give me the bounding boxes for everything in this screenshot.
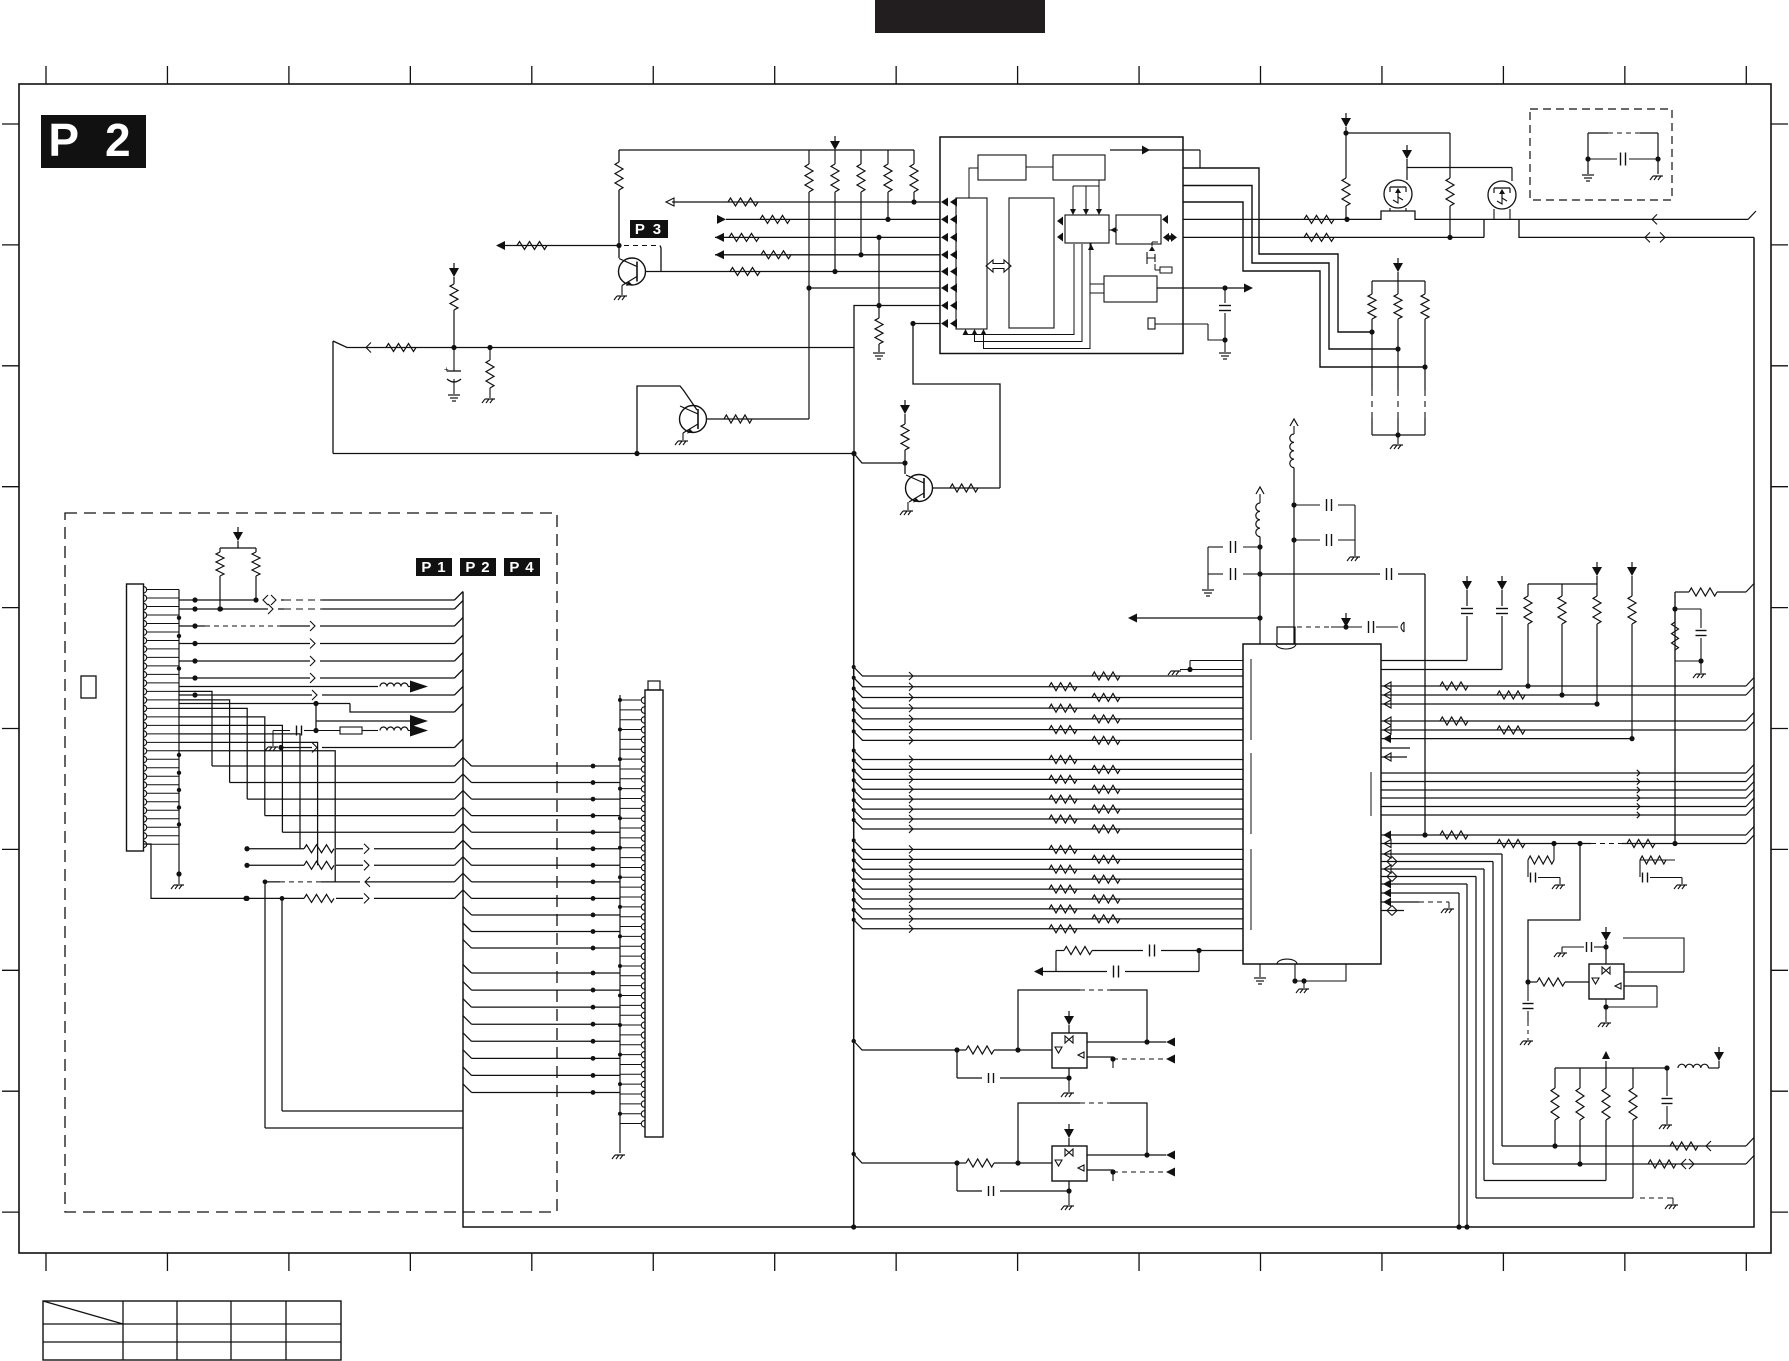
U1 crystal — [1148, 318, 1225, 340]
resistor R10 — [760, 215, 790, 223]
ground U4 — [1598, 999, 1611, 1027]
power arrow V16 — [1064, 1124, 1074, 1146]
wire row 832 to CN2 — [282, 824, 620, 835]
capacitor C11 — [1659, 1068, 1673, 1129]
rail top wire — [619, 149, 914, 151]
resistor R31 — [1497, 726, 1525, 734]
junction — [634, 451, 639, 456]
wire U2 staircase 869 — [1381, 869, 1484, 1181]
wire U2 staircase 861 — [1381, 862, 1493, 1165]
ground C6 — [1202, 590, 1214, 596]
wire row 898 to CN2 — [244, 890, 620, 904]
wire rail 133 — [1343, 130, 1450, 135]
capacitor C7 — [1369, 621, 1399, 633]
capacitor C6 — [1208, 568, 1260, 589]
power arrow V5 — [1402, 145, 1412, 180]
wire U2 mid row 806 — [1381, 798, 1754, 810]
title block bar — [875, 0, 1045, 33]
wire row 237 — [715, 236, 940, 238]
wire fan row 678 — [179, 670, 463, 684]
wire bus row 718 — [852, 708, 1243, 723]
wire U2 row 910 stub — [1381, 906, 1404, 916]
arrow 150 — [1142, 146, 1150, 155]
wire row 931 to CN2 — [463, 923, 620, 934]
power arrow V17 — [233, 527, 243, 548]
pullup columns U2 — [1524, 584, 1601, 704]
sheet label P2 — [41, 114, 146, 168]
dashed base link — [624, 245, 658, 247]
wire drop row 881 — [263, 879, 463, 1128]
svg-text:P 1: P 1 — [421, 559, 446, 576]
wire bus row 990 to CN2 — [463, 982, 620, 993]
U1 sub-block B — [1053, 155, 1105, 180]
wire Q3 collector — [913, 324, 1000, 489]
svg-text:+: + — [444, 365, 449, 374]
resistor R29 — [1497, 691, 1525, 699]
capacitor C1 electrolytic — [444, 348, 461, 402]
wire bus row 849 — [852, 838, 1243, 853]
wire long 347 — [333, 341, 854, 348]
resistor R22 — [1446, 133, 1454, 237]
ground RC pair — [1693, 674, 1706, 678]
wire out2 U6 — [1087, 1168, 1175, 1182]
power arrow V8 — [1462, 576, 1472, 590]
connector CN2 body — [645, 681, 663, 1137]
ground Q3 emitter — [900, 502, 913, 515]
wire U2 row 835 — [1381, 827, 1754, 840]
ground Q2 emitter — [675, 433, 688, 445]
wire staircase net C — [1183, 202, 1425, 367]
wire row 799 to CN2 — [247, 791, 620, 802]
wire Q1 collector row — [646, 271, 940, 273]
resistor network R24 R25 R26 — [1368, 281, 1429, 370]
wire bus row 1075 to CN2 — [463, 1067, 620, 1078]
wire U2 row 704 — [1381, 700, 1600, 708]
wire row 848 to CN2 — [244, 840, 620, 854]
wire feedback U6 — [1018, 1103, 1150, 1163]
arrow right row219 — [717, 215, 726, 224]
wire U4 input — [1525, 844, 1589, 987]
power arrow V6 — [1393, 258, 1403, 281]
capacitor C8 — [1461, 590, 1473, 614]
U1 sub-block A — [978, 155, 1026, 180]
ground U2 left — [1254, 964, 1266, 984]
label P3 — [630, 220, 668, 238]
wire staircase net A — [1183, 168, 1372, 332]
wire fan row 730 filter — [265, 725, 428, 752]
inductor L3 — [1664, 1061, 1719, 1071]
arrows staircase — [1383, 850, 1397, 898]
wire net LA — [1183, 211, 1748, 219]
wire out2 U5 — [1087, 1055, 1175, 1069]
arrow left row237 — [715, 233, 724, 242]
resistor R2 — [517, 242, 547, 250]
svg-text:P 2: P 2 — [48, 114, 137, 166]
wire U2 staircase 893 — [1381, 893, 1462, 1230]
resistor R5 pull-up — [831, 150, 839, 272]
wire row 766 to CN2 — [212, 758, 620, 769]
resistor R27 cap C10 pair — [1672, 609, 1707, 673]
wire long left arrow — [1128, 614, 1260, 623]
resistor R21 — [1304, 233, 1453, 241]
wire fan row 661 — [179, 653, 463, 667]
dashed block boundary — [65, 513, 557, 1212]
wire bus row 1058 to CN2 — [463, 1050, 620, 1061]
wire U1 out 150 — [1110, 150, 1200, 168]
wire U2 row 843 — [1381, 835, 1754, 848]
U1 register block 2 — [1009, 198, 1054, 328]
jog LA — [1748, 211, 1756, 219]
capacitor C3 — [1294, 499, 1355, 540]
resistor R6 pull-up — [857, 150, 865, 255]
driver U4 — [1589, 964, 1624, 999]
wire collector link — [660, 246, 661, 272]
wire bus row 740 — [852, 729, 1243, 744]
wire U2 mid row 790 — [1381, 782, 1754, 794]
resistor R28 — [1440, 682, 1468, 690]
junction — [851, 451, 856, 456]
resistor R40 — [216, 548, 256, 612]
junction — [832, 269, 837, 274]
capacitor C5 — [1208, 541, 1260, 574]
wire row 1164 — [1493, 1156, 1754, 1170]
arrow clk — [1244, 284, 1253, 293]
wire row 323 — [910, 321, 940, 326]
wire row 670 — [1381, 616, 1502, 670]
wire row 1146 — [1502, 1138, 1754, 1152]
wire bus row 928 — [852, 918, 1243, 933]
wire U2 mid row 781 — [1381, 773, 1754, 785]
wire U2 row 748 stub — [1381, 747, 1410, 749]
resistor R8 pull-up — [910, 150, 918, 202]
U1 C input arrows — [1057, 217, 1063, 242]
wire bus row 859 — [852, 848, 1243, 863]
wire bottom loop U5 — [957, 1050, 1113, 1083]
driver U5 — [1052, 1033, 1087, 1068]
wire bus row 908 — [852, 898, 1243, 913]
wire U4 out1 — [1623, 938, 1684, 972]
wire fan row 721 arrow — [316, 704, 428, 731]
connector stub E1 — [1401, 622, 1404, 632]
transistor Q2 — [637, 386, 707, 454]
IC U2 body — [1243, 627, 1381, 964]
wire net LB — [1183, 219, 1754, 237]
ground network — [1390, 445, 1403, 449]
wire U4 out2 — [1606, 986, 1657, 1007]
wire loop row 950 — [1056, 945, 1243, 957]
ground U2 bottom — [1292, 964, 1346, 993]
wire U2 row 686 — [1381, 678, 1754, 691]
power arrow V11 column — [1627, 562, 1637, 741]
svg-text:P 4: P 4 — [509, 559, 534, 576]
ground Q1 emitter — [614, 286, 627, 301]
wire row 574 to column — [1260, 568, 1425, 835]
power arrow V2 — [449, 263, 459, 277]
capacitor C4 — [1294, 534, 1355, 556]
connector CN1 body — [127, 584, 144, 851]
wire bus row 809 — [852, 798, 1243, 813]
resistor R7 pull-up — [884, 150, 892, 219]
junction — [885, 217, 890, 222]
wire U2 staircase 876 — [1381, 877, 1476, 1199]
wire row net1 — [500, 243, 622, 248]
wire row 202 — [672, 201, 940, 203]
capacitor C9 — [1496, 590, 1508, 614]
wire row 948 to CN2 — [463, 940, 620, 951]
wire row 661 — [1381, 616, 1467, 661]
ground CN1 — [171, 871, 184, 889]
capacitor C13 U4 input — [1520, 982, 1534, 1045]
wire drop row 898 — [280, 896, 463, 1111]
wire bus row 686 — [852, 676, 1243, 691]
wire bus row 708 — [852, 697, 1243, 712]
wire bus row 779 — [852, 768, 1243, 783]
transistor Q4 mosfet — [1384, 180, 1412, 211]
capacitor C2 — [1219, 288, 1231, 359]
wire U2 mid row 815 — [1381, 807, 1754, 819]
wire out1 U6 — [1087, 1151, 1175, 1160]
wire Q2 collector — [707, 418, 809, 420]
U1 sub-block D — [1116, 215, 1161, 244]
wire right rail — [851, 237, 1754, 1229]
arrows LB — [1645, 232, 1665, 242]
driver U6 — [1052, 1146, 1087, 1181]
revision table — [43, 1301, 341, 1360]
power arrow V12 up — [1602, 1051, 1610, 1068]
svg-text:P 2: P 2 — [465, 559, 490, 576]
U1 small mosfet glyph — [1147, 242, 1172, 273]
power arrow V1 — [830, 136, 840, 150]
ground U5 — [1061, 1078, 1074, 1097]
resistor network R35-R38 — [1551, 1068, 1667, 1198]
wire U2 staircase 854 — [1381, 854, 1502, 1146]
wire fan row 747 — [278, 739, 463, 753]
power arrow V9 — [1497, 576, 1507, 590]
arrow open left 347 — [366, 343, 371, 353]
wire bus row 1041 to CN2 — [463, 1033, 620, 1044]
capacitor C12 U4 — [1554, 942, 1606, 957]
wire feedback U5 — [1018, 990, 1150, 1050]
resistor R13 to ground — [873, 235, 885, 359]
arrow open left row202 — [666, 198, 674, 206]
ground option left — [1582, 175, 1594, 181]
wire U2 row 695 — [1381, 687, 1754, 700]
wire bus row 973 to CN2 — [463, 965, 620, 976]
wire fan row 703 — [179, 701, 463, 712]
power arrow V14 U4 — [1601, 927, 1611, 964]
junction — [806, 285, 811, 290]
wire CN2 pin bus — [618, 695, 622, 1153]
wire bus row 697 — [852, 686, 1243, 701]
wire row 288 — [809, 287, 940, 289]
wire long 453 — [333, 341, 854, 454]
wire U2 mid row 773 — [1381, 765, 1754, 777]
wire bus row 759 — [852, 749, 1243, 764]
resistor R16 to ground — [482, 345, 495, 403]
wire bus row 879 — [852, 868, 1243, 883]
RC snubber A — [1528, 844, 1565, 890]
wire U2 mid row 798 — [1381, 790, 1754, 802]
wire bus row 869 — [852, 858, 1243, 873]
wire fan row 686 inductor — [179, 681, 428, 693]
ground U6 — [1061, 1191, 1074, 1210]
wire bus row 799 — [852, 788, 1243, 803]
resistor R34 — [1627, 840, 1655, 848]
wire input U5 — [852, 1039, 1053, 1054]
wire staircase net B — [1183, 186, 1398, 350]
resistor R32 — [1440, 831, 1468, 839]
wire A-B — [1026, 166, 1053, 168]
power arrow V7 — [1341, 613, 1351, 627]
wire row 881 to CN2 — [265, 873, 620, 887]
wire U1 clk out — [1157, 285, 1244, 290]
inductor L1 — [1290, 419, 1298, 644]
arrow left row255 — [715, 250, 724, 259]
wire bus row 1007 to CN2 — [463, 999, 620, 1010]
power arrow V3 — [900, 400, 910, 414]
U1 D output arrows — [1162, 215, 1177, 242]
resistor R3 — [730, 268, 760, 276]
wire row 914 to CN2 — [463, 906, 620, 917]
wire bottom loop U6 — [957, 1163, 1113, 1196]
wire main bus left — [853, 454, 855, 1228]
wire bus row 676 — [852, 665, 1243, 680]
wire bus row 918 — [852, 908, 1243, 923]
wire row 865 to CN2 — [244, 857, 620, 871]
wire row 1198 — [1476, 1198, 1678, 1209]
U1 register block 1 — [956, 198, 987, 329]
ground C4 — [1347, 557, 1360, 561]
resistor R4 pull-up — [805, 150, 813, 419]
power arrow V15 — [1064, 1011, 1074, 1033]
power arrow V10 — [1592, 562, 1602, 584]
resistor R12 — [761, 251, 791, 259]
wire fan row 643 — [179, 635, 463, 649]
wire pin staircase — [179, 691, 335, 881]
wire bus row 789 — [852, 778, 1243, 793]
wire Q3 base — [854, 454, 908, 475]
resistor R23 — [1342, 133, 1350, 219]
wire row 815 to CN2 — [265, 807, 620, 818]
wire CN1 bottom link — [144, 844, 249, 901]
transistor Q1 — [619, 258, 646, 286]
power arrow V4 — [1341, 113, 1351, 133]
component box small — [81, 676, 96, 698]
wire bus row 828 — [852, 818, 1243, 833]
wire fan bus — [463, 592, 854, 1228]
wire bus row 729 — [852, 719, 1243, 734]
U1 sub-block E — [1104, 276, 1157, 302]
wire bus row 889 — [852, 878, 1243, 893]
wire U2 staircase 884 — [1381, 884, 1470, 1230]
wire row 1180 — [1484, 1180, 1606, 1182]
wire row 255 — [715, 254, 940, 256]
svg-text:P 3: P 3 — [635, 221, 663, 238]
wire U2 row 757 stub — [1381, 753, 1407, 761]
wire bus row 819 — [852, 808, 1243, 823]
ground CN2 — [612, 1155, 625, 1159]
resistor R19 — [950, 484, 978, 492]
labels P1 P2 P4 — [416, 558, 540, 576]
wire U2 row 902 dashed gnd — [1381, 898, 1454, 914]
wire input U6 — [852, 1152, 1053, 1167]
U1 bus arrow — [986, 260, 1011, 272]
wire CN1 pin bus — [177, 590, 181, 875]
arrow left net1 — [496, 241, 505, 250]
junction — [911, 199, 916, 204]
power arrow V13 — [1714, 1047, 1724, 1061]
U1 internal feeds — [969, 168, 1172, 293]
junction — [858, 252, 863, 257]
wire net 592 — [1672, 584, 1754, 844]
wire bus row 1092 to CN2 — [463, 1084, 620, 1095]
resistor R17 — [724, 415, 752, 423]
connector CN1 pins — [144, 587, 180, 848]
wire U2 row 739 — [1381, 734, 1632, 743]
transistor Q5 mosfet — [1488, 168, 1516, 220]
U2 left group glyph — [1168, 661, 1243, 676]
wire row 219 — [726, 218, 940, 220]
IC U1 body — [940, 137, 1183, 354]
resistor R1 — [615, 150, 623, 258]
ground option right — [1650, 176, 1663, 180]
component inside option box — [1585, 133, 1660, 174]
resistor R9 — [728, 198, 758, 206]
wire U2 row 730 — [1381, 722, 1754, 735]
wire loop row 971 — [1034, 951, 1199, 978]
wire fan row 600 — [179, 592, 463, 606]
transistor Q3 — [906, 475, 933, 503]
resistor R15 — [450, 277, 458, 350]
arrow LA — [1652, 214, 1657, 224]
U1 sub-block C — [1065, 215, 1109, 243]
wire row 306 — [854, 306, 940, 454]
resistor R20 — [1304, 215, 1350, 223]
wire bus row 899 — [852, 888, 1243, 903]
inductor L2 — [1256, 487, 1264, 644]
wire bus row 769 — [852, 758, 1243, 773]
wire rail 168 — [1407, 167, 1512, 169]
dashed option box — [1530, 109, 1672, 200]
wire fan row 609 — [179, 601, 463, 615]
wire row 782 to CN2 — [230, 774, 620, 785]
U1 left edge pin arrows — [941, 198, 957, 329]
RC snubber B — [1640, 844, 1687, 890]
dashed stubs network — [1372, 332, 1425, 444]
resistor R30 — [1440, 717, 1468, 725]
wire bus row 1024 to CN2 — [463, 1016, 620, 1027]
wire U2 row 721 — [1381, 713, 1754, 726]
resistor R41 — [252, 548, 260, 603]
resistor R33 — [1497, 840, 1525, 848]
connector CN2 pins — [620, 697, 645, 1127]
wire dashed notch net — [1297, 624, 1362, 629]
wire out1 U5 — [1087, 1038, 1175, 1047]
wire fan row 695 — [179, 687, 463, 701]
resistor R14 — [386, 344, 416, 352]
wire fan row 626 — [179, 618, 463, 632]
resistor R11 — [729, 233, 759, 241]
U1 bottom feedback wires — [963, 244, 1091, 349]
resistor R18 — [901, 414, 909, 463]
